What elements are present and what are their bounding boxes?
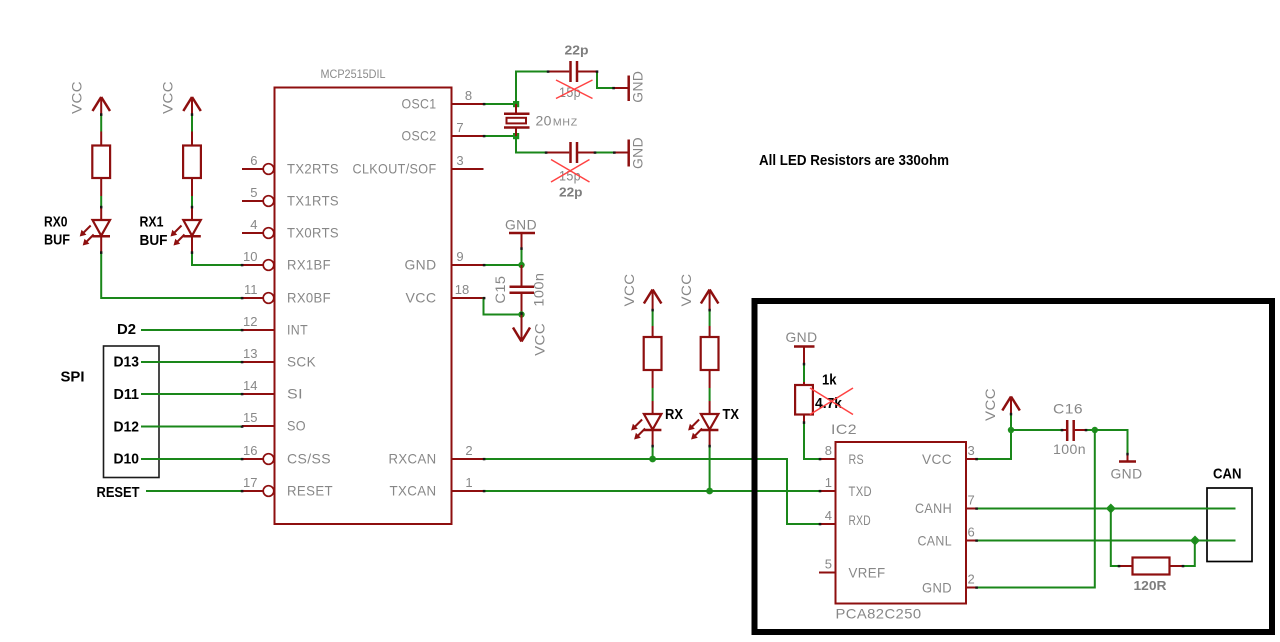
- svg-text:1k: 1k: [822, 372, 837, 389]
- wire C16 node down to IC2 pin 2 GND: [977, 430, 1095, 588]
- wire U1 pin 8 to crystal node: [485, 103, 516, 105]
- node OSC1 junction: [513, 101, 519, 107]
- resistor R2 1k: [795, 382, 813, 423]
- svg-text:3: 3: [456, 153, 463, 168]
- U1 pin 18 VCC: [406, 282, 484, 306]
- IC2 pin 6 CANL: [918, 525, 977, 549]
- LED4 TX: [688, 401, 718, 446]
- ground GND (top cap): [614, 71, 646, 103]
- svg-text:VCC: VCC: [69, 81, 85, 114]
- node C16 right junction: [1092, 427, 1098, 433]
- svg-text:8: 8: [825, 443, 832, 458]
- U1 pin 3 CLKOUT/SOF: [353, 153, 484, 177]
- svg-text:10: 10: [243, 249, 257, 264]
- wire RXCAN net (U1 pin 2 to IC2 RXD): [485, 459, 820, 524]
- U1 pin 12 INT: [242, 314, 308, 338]
- U1 pin 13 SCK: [242, 346, 316, 370]
- node VCC junction: [518, 311, 524, 317]
- wire R5 to LED3: [652, 388, 654, 401]
- U1 pin 4 TX0RTS: [242, 217, 339, 241]
- svg-text:18: 18: [455, 282, 469, 297]
- svg-text:MCP2515DIL: MCP2515DIL: [321, 69, 387, 81]
- wire crystal node up to C1: [516, 72, 548, 105]
- svg-text:GND: GND: [630, 137, 646, 169]
- U1 pin 5 TX1RTS: [242, 185, 339, 209]
- resistor R6 330ohm (TX): [701, 326, 719, 388]
- wire TXCAN net (U1 pin 1 to IC2 TXD): [485, 490, 820, 492]
- resistor R7 120R termination: [1119, 558, 1183, 575]
- svg-text:SI: SI: [287, 386, 303, 402]
- svg-text:120R: 120R: [1134, 578, 1168, 593]
- svg-text:17: 17: [243, 475, 257, 490]
- resistor R5 330ohm (RX): [644, 326, 662, 388]
- wire LED2 to U1 pin 10 RX1BF: [192, 253, 242, 266]
- wire VCC down to node: [1010, 414, 1012, 430]
- svg-text:9: 9: [456, 249, 463, 264]
- wire D13 to U1 pin 13 SCK: [141, 361, 242, 363]
- U1 pin 16 CS/SS: [242, 443, 331, 467]
- old value 4.7k crossed out: [810, 388, 853, 415]
- U1 pin 6 TX2RTS: [242, 153, 339, 177]
- IC2 pin 4 RXD: [820, 508, 871, 528]
- wire GND to R2: [803, 364, 805, 382]
- U1 pin 10 RX1BF: [242, 249, 331, 273]
- svg-text:6: 6: [250, 153, 257, 168]
- node CANL junction: [1190, 536, 1200, 546]
- wire CANH node down to R7: [1111, 509, 1119, 567]
- power VCC symbol (down arrow at C15): [513, 315, 548, 356]
- power VCC symbol (RX1 branch): [160, 81, 201, 115]
- svg-text:3: 3: [968, 443, 975, 458]
- svg-text:CS/SS: CS/SS: [287, 451, 331, 467]
- svg-text:VCC: VCC: [922, 451, 952, 467]
- wire LED4 down to TXCAN net: [709, 446, 711, 491]
- wire C1 to GND: [597, 72, 614, 89]
- svg-text:RESET: RESET: [97, 484, 140, 501]
- svg-text:RX: RX: [665, 406, 683, 423]
- transceiver block outline (thick black box): [755, 301, 1273, 632]
- U1 pin 9 GND: [405, 249, 484, 273]
- svg-text:CAN: CAN: [1213, 466, 1242, 483]
- svg-text:D12: D12: [114, 419, 140, 436]
- U1 pin 14 SI: [242, 378, 303, 402]
- svg-text:VCC: VCC: [982, 388, 998, 421]
- IC2 pin 1 TXD: [820, 475, 872, 499]
- svg-text:C15: C15: [492, 276, 508, 304]
- svg-text:RX0: RX0: [44, 214, 68, 231]
- svg-text:100n: 100n: [531, 273, 547, 307]
- IC2 pin 7 CANH: [915, 493, 977, 517]
- svg-text:2: 2: [968, 572, 975, 587]
- wire CANH net (IC2 pin 7 to CAN connector): [977, 508, 1236, 510]
- IC2 pin 8 RS: [820, 443, 864, 467]
- svg-text:OSC1: OSC1: [402, 96, 437, 112]
- svg-text:GND: GND: [1111, 466, 1143, 482]
- power VCC symbol (TX branch): [678, 274, 718, 311]
- svg-text:RX0BF: RX0BF: [287, 290, 331, 306]
- svg-text:C16: C16: [1053, 401, 1083, 417]
- svg-text:RXD: RXD: [849, 512, 872, 528]
- wire C16 to node: [1086, 429, 1095, 431]
- svg-text:RX1BF: RX1BF: [287, 257, 331, 273]
- capacitor C15 100n: [492, 265, 547, 313]
- ground GND (above C15): [505, 217, 537, 249]
- LED3 RX: [631, 401, 661, 446]
- power VCC symbol (at C16): [982, 388, 1020, 421]
- wire RESET to U1 pin 17: [146, 490, 242, 492]
- wire R3 to LED1: [100, 196, 102, 208]
- svg-text:SCK: SCK: [287, 354, 316, 370]
- wire U1 pin 9 to node: [485, 264, 522, 266]
- wire D10 to U1 pin 16 CS/SS: [141, 458, 242, 460]
- LED2 RX1 BUF: [171, 208, 201, 253]
- U1 pin 7 OSC2: [402, 120, 484, 144]
- ground GND (above R2): [786, 329, 818, 364]
- U1 pin 11 RX0BF: [242, 282, 331, 306]
- svg-text:11: 11: [244, 282, 258, 297]
- svg-text:5: 5: [825, 557, 832, 572]
- IC2 pin 3 VCC: [922, 443, 977, 467]
- svg-text:CLKOUT/SOF: CLKOUT/SOF: [353, 161, 437, 177]
- svg-text:RS: RS: [849, 451, 865, 467]
- svg-text:22p: 22p: [559, 185, 583, 200]
- capacitor C16 100n: [1053, 401, 1086, 458]
- svg-text:GND: GND: [630, 71, 646, 103]
- resistor R3 330ohm (RX0): [92, 132, 110, 197]
- svg-text:VCC: VCC: [678, 274, 694, 307]
- svg-text:VCC: VCC: [406, 290, 437, 306]
- wire joint dots (net endpoints): [100, 70, 1184, 588]
- svg-text:7: 7: [456, 120, 463, 135]
- svg-text:VCC: VCC: [621, 274, 637, 307]
- node OSC2 junction: [513, 133, 519, 139]
- svg-text:GND: GND: [786, 329, 818, 345]
- U1 pin 17 RESET: [242, 475, 333, 499]
- svg-text:BUF: BUF: [140, 232, 168, 249]
- svg-text:TX: TX: [723, 406, 740, 423]
- svg-text:GND: GND: [505, 217, 537, 233]
- wire U1 pin 7 to crystal node: [485, 135, 516, 137]
- svg-text:6: 6: [968, 525, 975, 540]
- svg-text:All LED Resistors are 330ohm: All LED Resistors are 330ohm: [759, 152, 949, 169]
- svg-text:TX2RTS: TX2RTS: [287, 161, 339, 177]
- svg-text:TXCAN: TXCAN: [390, 483, 437, 499]
- IC2 pin 5 VREF: [819, 557, 886, 581]
- wire CANL net (IC2 pin 6 to CAN connector): [977, 540, 1236, 542]
- label RX1 BUF: [140, 214, 168, 250]
- svg-text:OSC2: OSC2: [402, 128, 437, 144]
- svg-text:2: 2: [465, 443, 472, 458]
- crystal Q1 20MHz: [504, 104, 530, 136]
- svg-text:1: 1: [465, 475, 472, 490]
- old value 15p crossed out (top): [556, 80, 593, 100]
- svg-text:VREF: VREF: [849, 565, 886, 581]
- wire D12 to U1 pin 15 SO: [141, 426, 242, 428]
- wire crystal node down to C2: [516, 136, 546, 153]
- svg-text:12: 12: [243, 314, 257, 329]
- svg-text:VCC: VCC: [532, 323, 548, 356]
- label RX0 BUF: [44, 214, 70, 249]
- wire IC2 pin 3 to VCC node: [977, 430, 1012, 459]
- svg-text:5: 5: [250, 185, 257, 200]
- svg-text:BUF: BUF: [44, 232, 70, 249]
- wire node to GND: [1095, 430, 1128, 454]
- wire C2 to GND: [595, 152, 615, 154]
- svg-text:INT: INT: [287, 322, 308, 338]
- wire LED3 to RXCAN net: [652, 446, 654, 459]
- capacitor C1 22p (top): [548, 61, 597, 82]
- node TXCAN junction: [706, 488, 713, 495]
- svg-text:SPI: SPI: [61, 369, 85, 386]
- wire U1 pin 18 to node: [484, 298, 522, 315]
- op-amp IC2 body PCA82C250: [831, 421, 966, 622]
- power VCC symbol (RX0 branch): [69, 81, 111, 115]
- wire VCC to R6: [709, 310, 711, 326]
- svg-text:IC2: IC2: [831, 421, 857, 437]
- SPI group box: [104, 346, 160, 478]
- svg-text:GND: GND: [405, 257, 437, 273]
- svg-text:7: 7: [968, 493, 975, 508]
- ground GND (bottom cap): [615, 137, 646, 169]
- U1 pin 1 TXCAN: [390, 475, 484, 499]
- svg-text:15: 15: [243, 410, 257, 425]
- wire GND to pin 9 node: [521, 249, 523, 266]
- svg-text:SO: SO: [287, 418, 306, 434]
- svg-text:TX0RTS: TX0RTS: [287, 225, 339, 241]
- svg-text:8: 8: [465, 88, 472, 103]
- svg-text:CANH: CANH: [915, 500, 952, 516]
- svg-text:D11: D11: [114, 386, 140, 403]
- wire VCC to R4: [191, 115, 193, 132]
- svg-text:CANL: CANL: [918, 533, 953, 549]
- svg-text:22p: 22p: [565, 43, 589, 58]
- capacitor C2 22p (bottom): [546, 142, 595, 163]
- ground GND (right of C16): [1111, 454, 1143, 482]
- U1 pin 8 OSC1: [402, 88, 484, 112]
- svg-text:4: 4: [250, 217, 257, 232]
- node CANH junction: [1106, 504, 1116, 514]
- svg-text:14: 14: [243, 378, 257, 393]
- svg-text:RXCAN: RXCAN: [389, 451, 437, 467]
- svg-text:100n: 100n: [1053, 441, 1086, 457]
- IC2 pin 2 GND: [922, 572, 977, 596]
- svg-text:TX1RTS: TX1RTS: [287, 193, 339, 209]
- svg-text:TXD: TXD: [849, 483, 873, 499]
- svg-text:D13: D13: [114, 354, 140, 371]
- svg-text:1: 1: [825, 475, 832, 490]
- wire R4 to LED2: [191, 196, 193, 208]
- wire R7 up to CANL node: [1183, 541, 1195, 567]
- svg-text:PCA82C250: PCA82C250: [836, 606, 922, 622]
- op-amp U1 body MCP2515DIL: [275, 69, 452, 524]
- svg-text:GND: GND: [922, 580, 952, 596]
- power VCC symbol (RX branch): [621, 274, 661, 311]
- svg-text:VCC: VCC: [160, 81, 176, 114]
- resistor R4 330ohm (RX1): [183, 132, 201, 197]
- wire LED1 to U1 pin 11 RX0BF: [101, 253, 242, 299]
- U1 pin 15 SO: [242, 410, 306, 434]
- wire R2 to IC2 pin 8 RS: [804, 423, 820, 460]
- U1 pin 2 RXCAN: [389, 443, 484, 467]
- wire D11 to U1 pin 14 SI: [141, 393, 242, 395]
- node VCC/C16 junction: [1008, 427, 1014, 433]
- svg-text:16: 16: [243, 443, 257, 458]
- svg-text:D10: D10: [114, 451, 140, 468]
- LED1 RX0 BUF: [80, 208, 110, 253]
- node RXCAN junction: [649, 456, 656, 463]
- wire node to C16: [1011, 429, 1062, 431]
- wire D2 to U1 pin 12 INT: [141, 329, 242, 331]
- old value 15p crossed out (bottom): [551, 160, 590, 184]
- wire VCC to R5: [652, 310, 654, 326]
- connector X1 CAN: [1207, 466, 1252, 562]
- node GND junction: [518, 262, 524, 268]
- wire R6 to LED4: [709, 388, 711, 401]
- svg-text:4: 4: [825, 508, 832, 523]
- svg-text:13: 13: [243, 346, 257, 361]
- svg-text:RESET: RESET: [287, 483, 333, 499]
- svg-text:RX1: RX1: [140, 214, 164, 231]
- wire VCC to R3: [100, 115, 102, 132]
- svg-text:D2: D2: [117, 321, 136, 338]
